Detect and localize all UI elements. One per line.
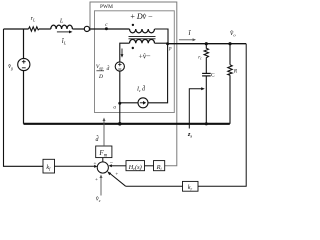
diagonal wire into summer <box>107 171 125 186</box>
node at load branch <box>228 42 231 45</box>
resistor r_L <box>29 27 40 31</box>
svg-text:D: D <box>98 74 103 80</box>
load resistor R <box>228 65 232 76</box>
wire k_r to diagonal <box>126 185 183 187</box>
wire k_f to summer with arrow <box>55 165 98 168</box>
svg-text:Vap: Vap <box>96 64 103 70</box>
wire node a down to ground rail <box>119 103 121 124</box>
capacitor C <box>202 73 211 76</box>
transformer secondary polarity dot <box>132 47 134 49</box>
transformer secondary winding <box>130 39 155 43</box>
source v_g branch wire lower <box>23 71 25 124</box>
svg-text:rL: rL <box>31 16 36 23</box>
duty cycle arrow d from F_m to PWM <box>103 118 106 147</box>
wire r_c to capacitor <box>205 59 207 73</box>
ground rail <box>24 123 230 125</box>
wire node to load resistor <box>229 44 231 65</box>
summer circle <box>97 162 108 173</box>
wire load resistor to rail <box>229 75 231 124</box>
svg-text:R: R <box>233 69 238 75</box>
svg-text:PWM: PWM <box>100 4 113 10</box>
wire inductor to terminal circle <box>72 28 84 30</box>
secondary current arrow down <box>121 49 124 58</box>
wire H_e to R_i <box>145 165 154 167</box>
bottom model wire a to current source <box>120 102 138 104</box>
node c <box>105 27 108 30</box>
transformer core lines <box>129 36 156 38</box>
wire top-left horizontal <box>4 28 29 30</box>
wire H_e to summer with arrow <box>109 164 127 167</box>
transformer primary polarity dot <box>132 24 134 26</box>
svg-text:He(s): He(s) <box>128 164 142 171</box>
wire primary right stub to p <box>155 29 169 44</box>
wire current source to p corner <box>148 44 168 103</box>
source v_g branch wire upper <box>23 29 25 59</box>
svg-text:+ Dv̂ −: + Dv̂ − <box>130 12 153 21</box>
svg-text:+: + <box>115 171 118 177</box>
svg-text:rc: rc <box>198 56 202 61</box>
wire resistor to inductor <box>39 28 51 30</box>
node at capacitor branch <box>205 42 208 45</box>
source v_g <box>18 58 30 70</box>
sense arrow z_s pointing at capacitor branch <box>189 87 205 128</box>
terminal circle at c port <box>84 26 89 31</box>
wire capacitor to rail <box>205 76 207 124</box>
output wire p to right <box>168 43 247 45</box>
svg-text:L: L <box>59 19 64 25</box>
svg-text:C: C <box>211 73 215 79</box>
node a <box>118 102 121 105</box>
PWM inner box <box>95 11 175 113</box>
wire circle into PWM box <box>90 28 130 30</box>
node p <box>166 42 169 45</box>
gain block k_f <box>43 159 55 173</box>
left rail wire (v_g feedforward path down to k_f) <box>4 29 44 166</box>
gain block k_r <box>183 181 199 191</box>
controlled voltage source Vap/D d <box>115 62 124 71</box>
wire secondary left stub down <box>120 43 130 62</box>
transformer primary winding <box>130 29 155 33</box>
wire summer to F_m <box>102 158 104 162</box>
wire voltage source to node a <box>119 71 121 103</box>
svg-text:+: + <box>94 161 97 167</box>
PWM outer box boundary (open polyline, label PWM) <box>90 2 177 166</box>
svg-text:+v̂−: +v̂− <box>139 51 151 60</box>
controlled current source Ic d <box>138 98 148 108</box>
feedback wire v_o down right side to k_r <box>198 44 246 187</box>
block F_m <box>96 146 112 158</box>
svg-text:+: + <box>95 177 98 183</box>
control voltage arrow v_c into summer <box>100 174 103 195</box>
controlled voltage source label Vap/D d <box>96 64 110 80</box>
junction dot capacitor branch on rail <box>205 122 208 125</box>
current arrow i_L <box>57 30 73 33</box>
wire secondary right stub to p <box>155 42 168 44</box>
capacitor branch resistor r_c <box>204 44 208 59</box>
block R_i <box>154 161 165 171</box>
inductor L <box>51 25 73 29</box>
junction dot a branch on rail <box>118 122 122 126</box>
svg-text:Ic d̂: Ic d̂ <box>136 85 146 92</box>
block H_e(s) <box>126 161 145 171</box>
svg-text:p: p <box>168 47 172 52</box>
output current arrow i <box>179 38 196 41</box>
